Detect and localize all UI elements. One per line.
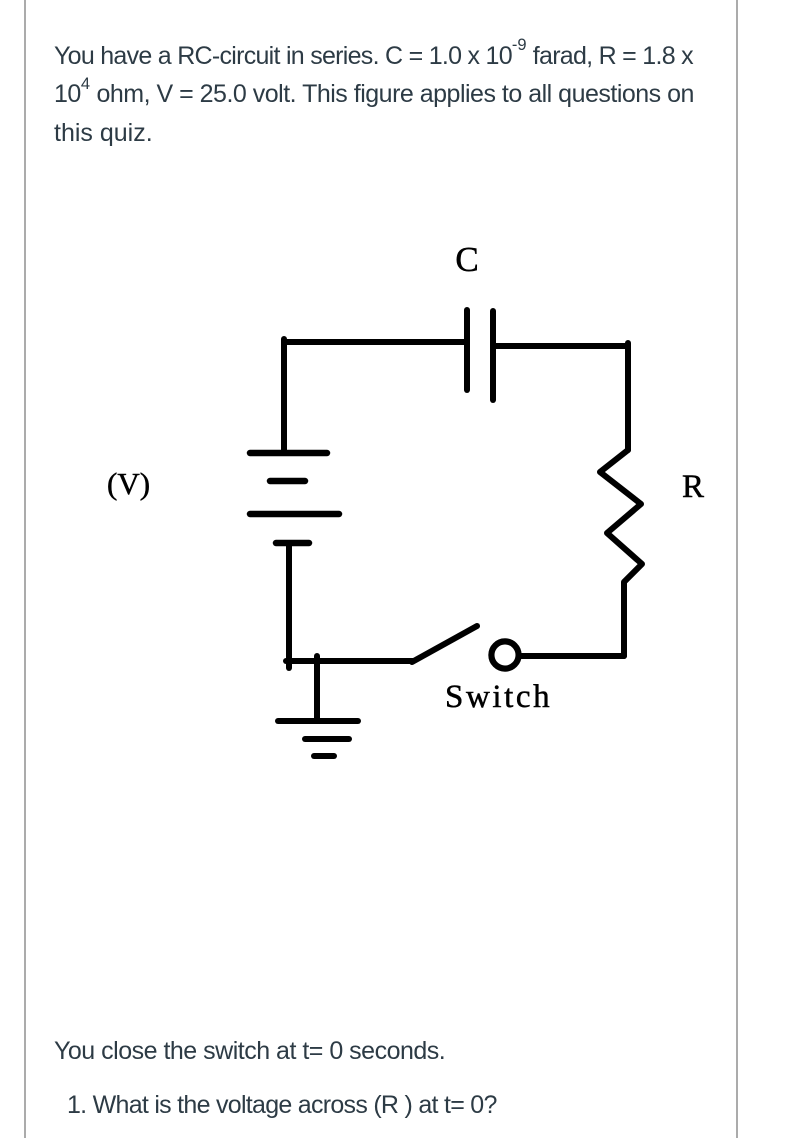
svg-text:R: R [682, 469, 704, 505]
svg-text:C: C [455, 240, 478, 279]
svg-text:(V): (V) [107, 466, 150, 501]
svg-text:Switch: Switch [445, 679, 552, 715]
